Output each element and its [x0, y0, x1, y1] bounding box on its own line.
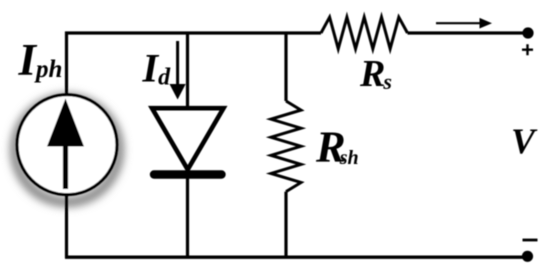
- wire diode branch vertical (bottom): [186, 174, 189, 258]
- minus sign: [523, 239, 538, 242]
- wire bottom horizontal: [65, 256, 527, 259]
- wire left vertical (bottom): [65, 193, 68, 258]
- wire top right horizontal: [408, 31, 525, 34]
- wire left vertical (top): [65, 32, 68, 98]
- terminal node plus (dot): [522, 27, 533, 38]
- terminal node minus (dot): [522, 251, 533, 262]
- current source Iph (circle with up arrow): [17, 95, 117, 195]
- current source shadow: [15, 98, 119, 202]
- wire Rsh branch vertical (bottom): [284, 192, 287, 258]
- wire Rsh branch vertical (top): [284, 32, 287, 102]
- resistor Rsh zigzag: [271, 101, 301, 192]
- current arrow Id: [170, 41, 186, 100]
- svg-text:V: V: [511, 121, 538, 161]
- diode D (triangle): [152, 108, 224, 169]
- diode cathode bar: [154, 170, 222, 178]
- resistor Rs zigzag: [321, 17, 408, 49]
- output current arrow: [436, 18, 492, 29]
- wire top left horizontal: [65, 31, 321, 34]
- wire diode branch vertical (top): [186, 32, 189, 111]
- plus sign: [522, 44, 533, 55]
